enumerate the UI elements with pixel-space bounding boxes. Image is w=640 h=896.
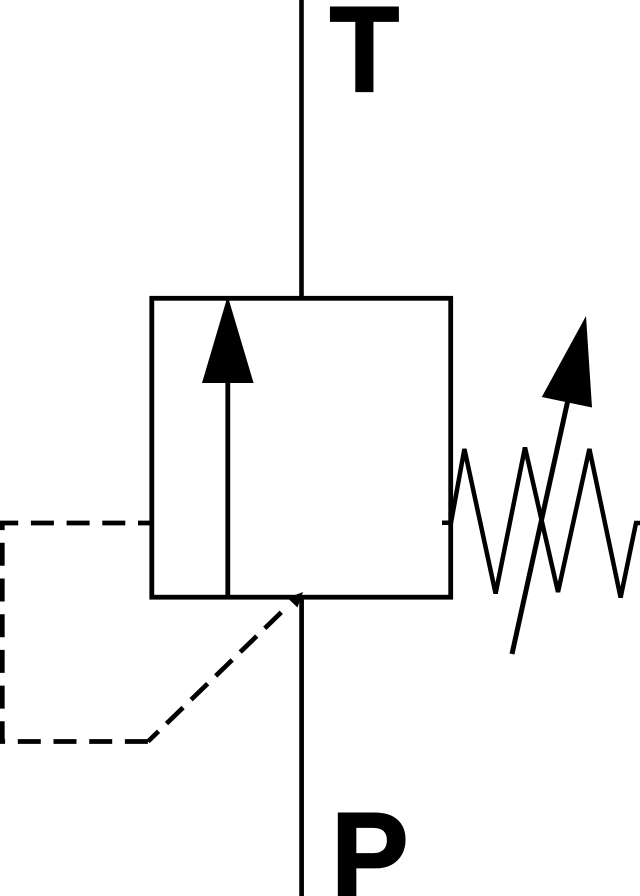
svg-text:T: T (329, 0, 399, 117)
svg-text:P: P (331, 788, 409, 896)
